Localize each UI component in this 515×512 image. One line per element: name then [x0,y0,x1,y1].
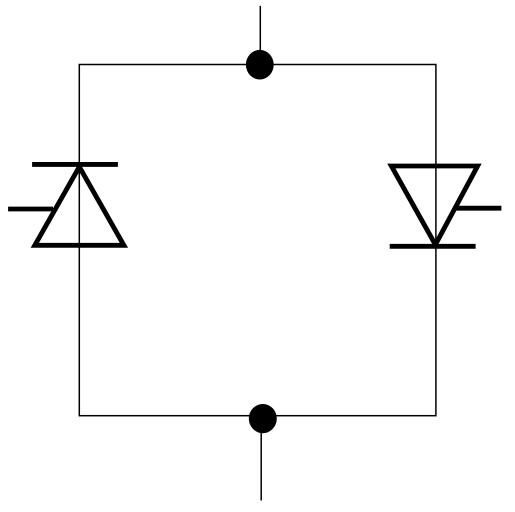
wire bottom terminal stub [260,416,262,501]
thyristor SCR1 triangle [35,167,124,246]
thyristor SCR2 (right, anode up) triangle [391,166,477,245]
node junction dot (bottom) [249,404,277,433]
wire top terminal stub [259,6,261,65]
thyristor SCR2 cathode bar [390,244,476,249]
thyristor SCR2 gate lead [456,206,501,211]
wire loop (square) [79,65,436,416]
thyristor SCR1 gate lead [8,207,53,212]
node junction dot (top) [246,50,274,80]
thyristor SCR1 (left, anode down) cathode bar [32,162,118,167]
